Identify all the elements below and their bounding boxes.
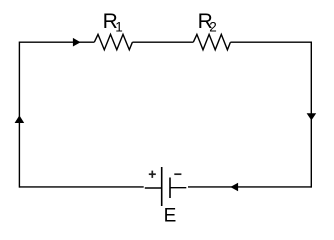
battery plus sign: [149, 171, 156, 178]
wire battery right lead: [170, 187, 186, 189]
svg-text:E: E: [164, 206, 177, 227]
battery E negative plate (short): [169, 178, 171, 199]
svg-text:R1: R1: [103, 10, 123, 34]
wire left side: [18, 42, 20, 188]
svg-text:R2: R2: [198, 10, 217, 34]
current arrow right side (pointing down): [307, 113, 317, 120]
wire between R1 and R2: [132, 41, 193, 43]
current arrow top (pointing right): [73, 38, 81, 47]
current arrow left side (pointing up): [15, 115, 25, 123]
wire top-left segment: [19, 41, 94, 43]
wire battery left lead: [145, 187, 162, 189]
battery minus sign: [174, 173, 181, 175]
wire bottom-left segment: [19, 186, 143, 188]
current arrow bottom (pointing left): [230, 183, 238, 191]
resistor R1: [94, 34, 132, 49]
resistor R2: [193, 34, 230, 49]
wire right side: [310, 42, 312, 188]
wire top-right segment: [230, 41, 311, 43]
battery E positive plate (long): [161, 167, 163, 206]
wire bottom-right segment: [188, 186, 311, 188]
